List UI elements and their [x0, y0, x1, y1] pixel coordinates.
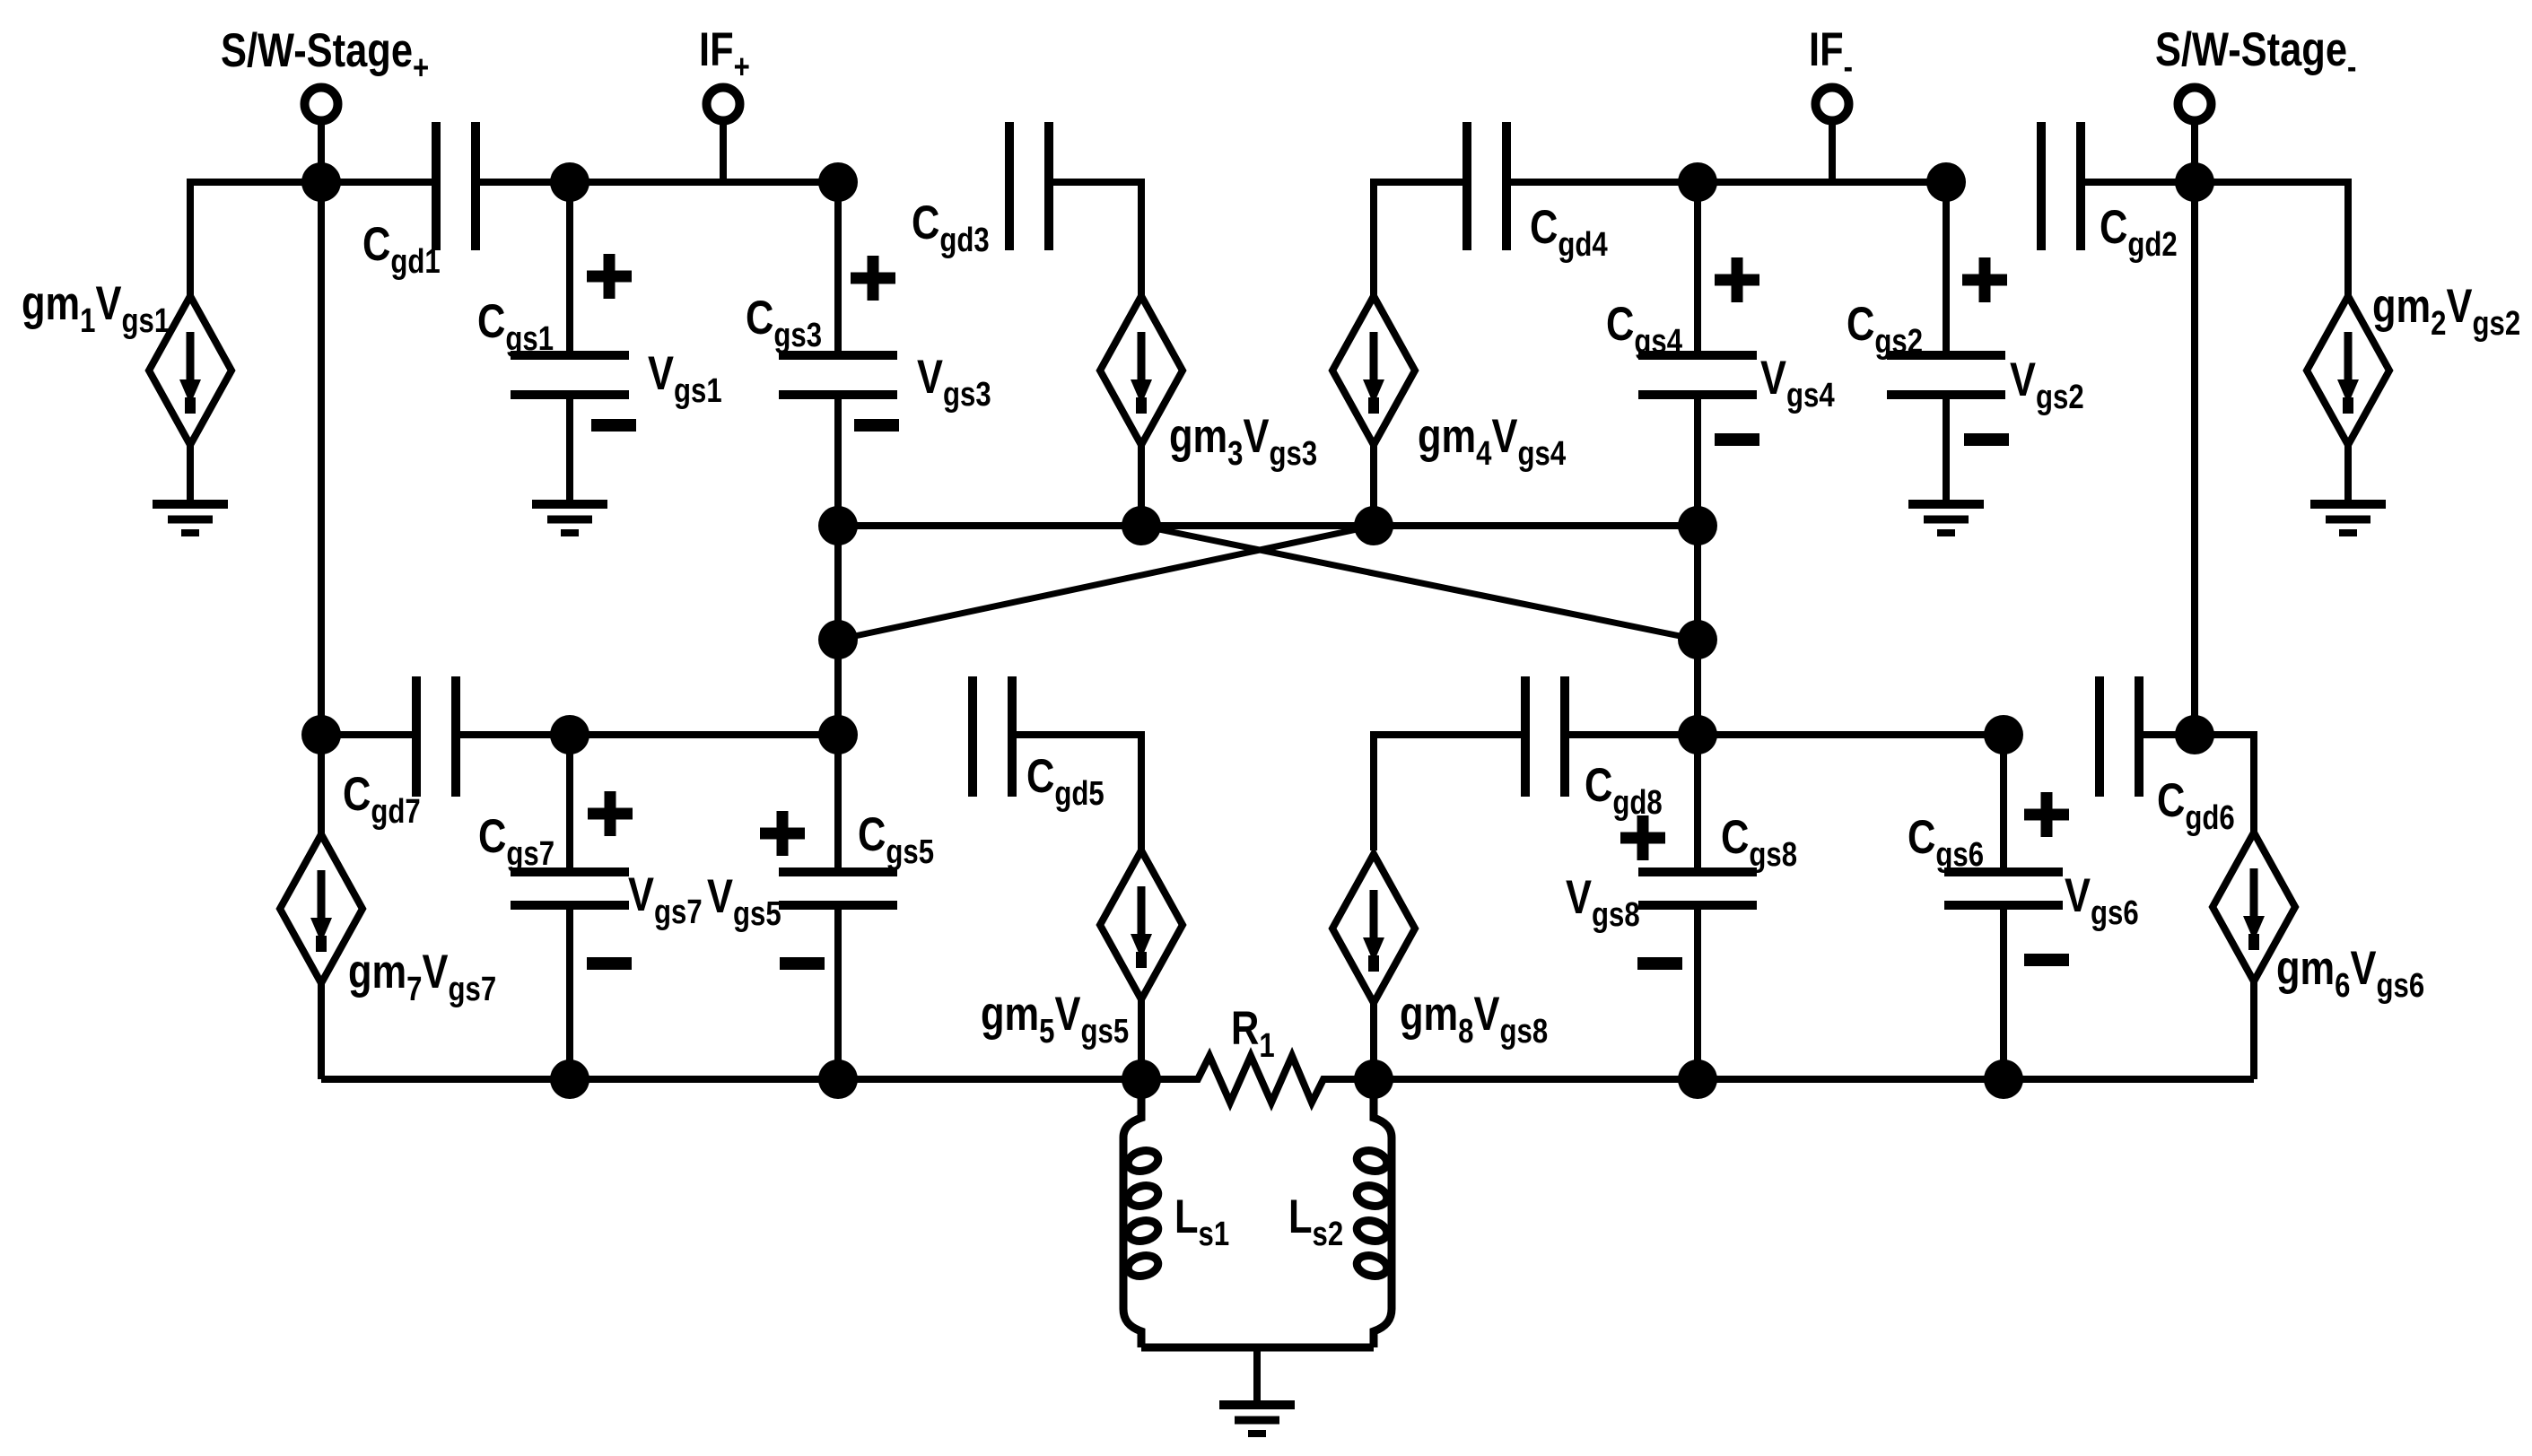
node Cgs1 top [550, 162, 589, 202]
capacitor Cgs8 [1638, 735, 1757, 1079]
label Ls2 [1288, 1190, 1343, 1253]
wire row2 bus left [321, 731, 416, 738]
polarity - Vgs3 [854, 419, 899, 432]
label Vgs1 [648, 347, 722, 410]
node Cgs7 bottom [550, 1059, 589, 1099]
label Vgs6 [2065, 869, 2139, 932]
ground under Cgs1 [532, 504, 607, 533]
capacitor Cgs2 [1887, 182, 2005, 504]
wire bottom bus right [1374, 1076, 2254, 1083]
capacitor Cgd7 [416, 676, 456, 797]
node Cgs3 bottom [818, 506, 858, 545]
node cross-couple left [818, 620, 858, 659]
label Cgs8 [1721, 811, 1797, 874]
label gm7Vgs7 [348, 946, 496, 1008]
label Cgs2 [1847, 298, 1923, 361]
wire Cgs3 bottom vertical [834, 526, 842, 735]
capacitor Cgd4 [1467, 122, 1506, 250]
polarity - Vgs5 [780, 957, 825, 970]
node Cgs2 top [1926, 162, 1966, 202]
polarity + Vgs6 [2024, 792, 2069, 837]
wire Cgd5 to gm5 corner [1012, 735, 1141, 850]
terminal S/W-Stage- [2178, 88, 2212, 183]
polarity - Vgs6 [2024, 954, 2069, 966]
wire gm8 corner to Cgd8 [1374, 735, 1525, 850]
capacitor Cgd3 [1009, 122, 1049, 250]
label Cgs4 [1606, 298, 1683, 361]
wire diagonal gm3 node to node X2 [1141, 526, 1698, 640]
label Cgs6 [1908, 811, 1984, 874]
wire Cgd7 to Cgs5 node [456, 731, 838, 738]
label gm6Vgs6 [2276, 942, 2424, 1005]
wire Cgd1 to IF+ node [476, 179, 838, 186]
current source gm5Vgs5 [1100, 850, 1183, 1079]
node gm4 bottom [1354, 506, 1393, 545]
wire row1 bottom bus [838, 522, 1698, 529]
label gm3Vgs3 [1169, 410, 1317, 473]
inductor Ls1 [1123, 1079, 1160, 1347]
wire tank bottom [1141, 1344, 1374, 1352]
wire Cgs4 bottom vertical [1694, 526, 1701, 735]
node Cgs3 top / IF+ net [818, 162, 858, 202]
label Cgd2 [2100, 201, 2178, 264]
label IF+ [699, 23, 750, 86]
polarity + Vgs5 [760, 811, 805, 856]
node Cgs6 top [1984, 715, 2023, 754]
polarity + Vgs4 [1715, 257, 1759, 302]
capacitor Cgs4 [1638, 182, 1757, 526]
label Cgd8 [1585, 759, 1663, 822]
terminal IF- [1816, 88, 1849, 183]
current source gm3Vgs3 [1100, 296, 1183, 526]
label gm8Vgs8 [1400, 988, 1548, 1051]
wire center tap [1253, 1347, 1261, 1405]
inductor Ls2 [1355, 1079, 1392, 1347]
wire right vertical S/W-Stage- to row2 [2191, 182, 2198, 735]
polarity - Vgs4 [1715, 433, 1759, 446]
capacitor Cgd6 [2100, 676, 2139, 797]
wire gm1 top lead [190, 182, 321, 296]
wire bottom bus left [321, 1076, 1141, 1083]
node gm5/Ls1/R1 [1122, 1059, 1161, 1099]
wire Cgd2 to gm2 corner [2079, 182, 2348, 296]
current source gm2Vgs2 [2307, 296, 2389, 504]
label Cgd4 [1530, 201, 1608, 264]
polarity + Vgs2 [1962, 257, 2007, 302]
node cross-couple right [1678, 620, 1717, 659]
label gm2Vgs2 [2372, 280, 2520, 343]
node Cgs4 bottom [1678, 506, 1717, 545]
polarity - Vgs1 [591, 419, 636, 432]
label S/W-Stage+ [221, 24, 429, 87]
node S/W-Stage- input [2175, 162, 2214, 202]
node Cgs6 bottom [1984, 1059, 2023, 1099]
wire gm4 corner to Cgd4 [1374, 182, 1468, 296]
capacitor Cgd1 [436, 122, 476, 250]
label Cgs7 [478, 810, 554, 873]
label Cgd6 [2157, 774, 2235, 837]
capacitor Cgs5 [779, 735, 897, 1079]
ground under tank [1219, 1405, 1295, 1434]
label IF- [1809, 23, 1853, 86]
label Vgs8 [1566, 871, 1640, 934]
label gm4Vgs4 [1418, 410, 1567, 473]
polarity - Vgs2 [1964, 433, 2009, 446]
node Cgs5 top [818, 715, 858, 754]
wire left vertical S/W-Stage+ to row2 [318, 182, 325, 735]
label Vgs7 [628, 868, 703, 931]
label Cgd5 [1026, 750, 1104, 813]
polarity + Vgs1 [587, 254, 632, 299]
capacitor Cgd2 [2041, 122, 2081, 250]
wire Cgd8 to Cgs6 node [1565, 731, 2004, 738]
wire Cgd4 to IF- node [1506, 179, 1946, 186]
label Cgs1 [477, 295, 554, 358]
capacitor Cgd5 [973, 676, 1012, 797]
label R1 [1231, 1002, 1275, 1065]
label Vgs4 [1760, 352, 1835, 414]
wire top bus left [190, 179, 436, 186]
capacitor Cgs1 [511, 182, 629, 504]
label Vgs2 [2010, 353, 2084, 416]
capacitor Cgs6 [1944, 735, 2063, 1079]
wire Cgd6 to gm6 corner [2139, 735, 2254, 833]
node Cgs4 top [1678, 162, 1717, 202]
current source gm1Vgs1 [149, 296, 231, 504]
polarity + Vgs8 [1620, 815, 1665, 860]
capacitor Cgs7 [511, 735, 629, 1079]
label gm1Vgs1 [22, 277, 170, 340]
label Cgs3 [746, 292, 822, 354]
node gm3 bottom [1122, 506, 1161, 545]
capacitor Cgd8 [1525, 676, 1565, 797]
capacitor Cgs3 [779, 182, 897, 526]
wire Cgd3 to gm3 corner [1049, 182, 1141, 296]
node Cgd7 left [301, 715, 341, 754]
ground under Cgs2 [1908, 504, 1984, 533]
node Cgs8 bottom [1678, 1059, 1717, 1099]
polarity + Vgs7 [588, 791, 633, 836]
resistor R1 [1141, 1056, 1374, 1103]
label S/W-Stage- [2155, 23, 2356, 86]
node gm8/Ls2/R1 [1354, 1059, 1393, 1099]
label Vgs3 [917, 351, 991, 414]
ground under gm1 [153, 504, 228, 533]
label Cgd1 [362, 218, 441, 281]
label gm5Vgs5 [981, 988, 1129, 1051]
node Cgs7 top [550, 715, 589, 754]
label Cgd3 [912, 196, 990, 259]
current source gm7Vgs7 [280, 735, 362, 1079]
node Cgd6 right [2175, 715, 2214, 754]
node Cgs5 bottom [818, 1059, 858, 1099]
terminal S/W-Stage+ [305, 88, 338, 183]
terminal IF+ [707, 88, 740, 183]
polarity + Vgs3 [851, 256, 895, 301]
node Cgs8 top [1678, 715, 1717, 754]
polarity - Vgs8 [1637, 957, 1682, 970]
label Vgs5 [707, 870, 781, 933]
ground under gm2 [2310, 504, 2386, 533]
node S/W-Stage+ input [301, 162, 341, 202]
label Cgs5 [858, 808, 934, 871]
current source gm6Vgs6 [2213, 833, 2295, 1079]
current source gm4Vgs4 [1332, 296, 1415, 526]
wire gm7 corner into bottom bus [318, 983, 325, 1079]
label Cgd7 [343, 768, 421, 831]
wire diagonal node X1 to gm4 node [838, 526, 1374, 640]
polarity - Vgs7 [587, 957, 632, 970]
label Ls1 [1174, 1190, 1229, 1253]
current source gm8Vgs8 [1332, 854, 1415, 1079]
